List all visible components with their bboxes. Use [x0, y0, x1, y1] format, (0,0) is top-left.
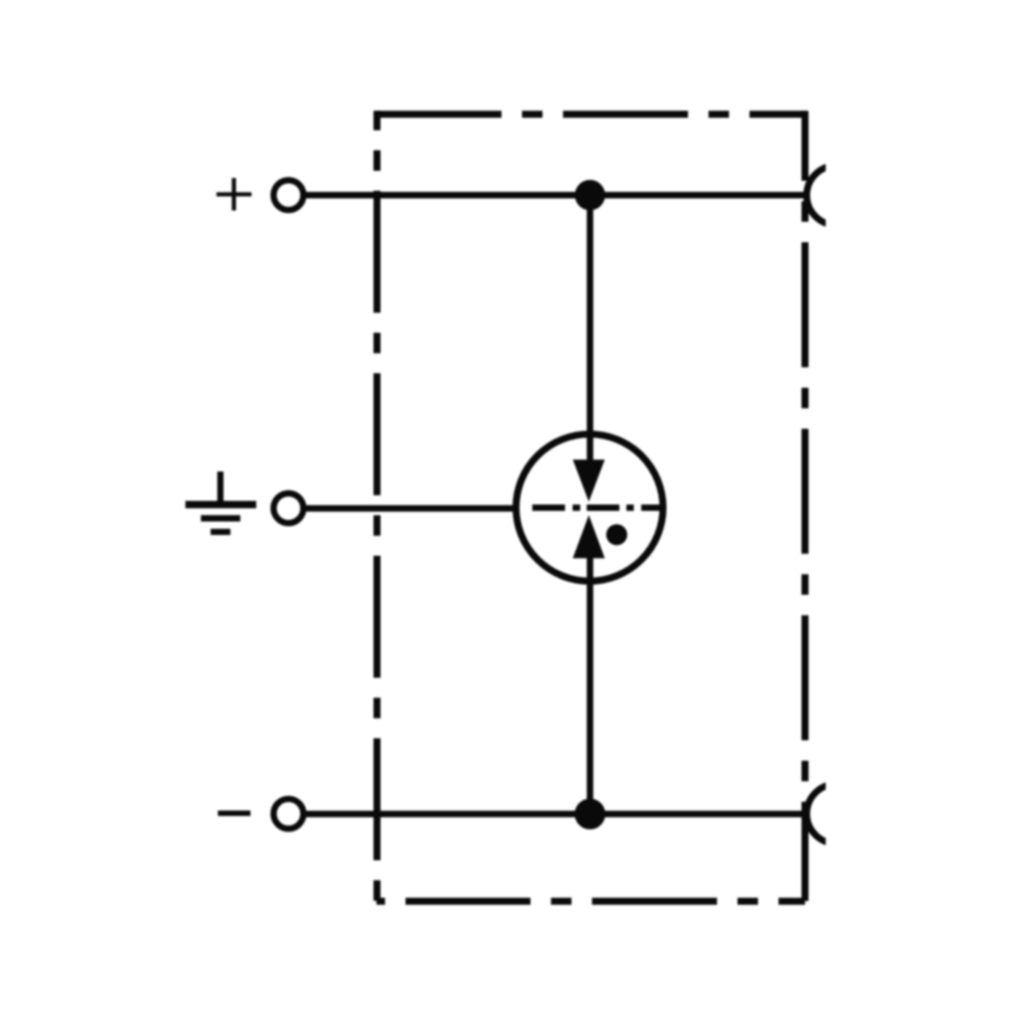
- plug contact, bottom right (clipped circle): [807, 784, 867, 844]
- terminal X1 (+) open circle: [274, 180, 304, 210]
- wire: bottom (-) rail: [305, 811, 806, 818]
- junction on bottom rail: [575, 799, 606, 830]
- wire: vertical drop from top rail to arrester: [587, 195, 594, 464]
- enclosure dash-dot border, top side: [377, 111, 806, 118]
- enclosure dash-dot border, left side: [374, 111, 381, 901]
- ground: [185, 472, 256, 532]
- spark-gap arrester F1: trigger dot: [606, 524, 627, 545]
- spark-gap arrester F1: body circle: [516, 434, 663, 581]
- enclosure dash-dot border, bottom side: [377, 898, 806, 905]
- minus polarity label: [218, 811, 251, 817]
- spark-gap arrester F1: centre dash-dot isolation line: [532, 505, 661, 511]
- wire: vertical drop from arrester to bottom rail: [587, 556, 594, 814]
- wire: middle (ground) lead: [306, 505, 519, 512]
- spark-gap arrester F1: upper electrode arrow: [573, 460, 605, 502]
- terminal X3 (-) open circle: [274, 799, 304, 829]
- enclosure dash-dot border, right side: [802, 111, 809, 901]
- junction on top rail: [575, 180, 605, 210]
- terminal X2 (ground) open circle: [274, 493, 304, 523]
- wire: top (+) rail: [306, 192, 806, 199]
- spark-gap arrester F1: lower electrode arrow: [573, 515, 605, 558]
- plus polarity label: [217, 178, 252, 211]
- plug contact, top right (clipped circle): [807, 166, 867, 226]
